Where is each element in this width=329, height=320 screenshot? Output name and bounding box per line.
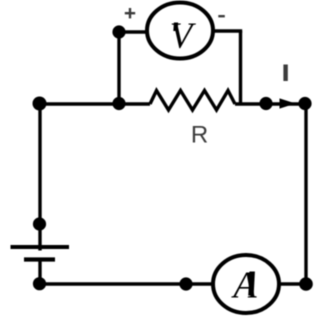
wire voltmeter plus horizontal [119,30,147,33]
node bottom-right [299,277,313,291]
label plus [125,8,135,18]
resistor R [150,91,235,111]
label minus [218,15,225,17]
node before arrow [259,97,272,110]
wire left vertical [38,104,41,251]
battery short plate [24,257,55,261]
wire voltmeter plus vertical [117,32,120,104]
node top-left [33,97,47,111]
node before ammeter [179,277,192,290]
label I current [283,65,287,82]
battery long plate [11,245,70,249]
wire top-left horizontal [40,102,150,105]
node top-right [298,97,311,110]
ammeter A circle [213,255,279,313]
wire voltmeter minus vertical [239,31,242,104]
wire bottom-left [40,282,213,285]
wire battery to bottom corner [38,258,41,284]
node voltmeter branch junction [112,97,125,110]
node voltmeter plus terminal [112,25,125,38]
wire bottom-right [279,282,306,285]
node bottom-left [33,277,46,290]
voltmeter U-V circle [147,3,213,59]
ammeter A stem stroke [248,272,255,296]
wire top-right horizontal [235,102,306,105]
wire right vertical [304,104,307,284]
svg-text:R: R [191,121,208,148]
current arrow [280,98,296,108]
voltmeter V serif blob [173,23,178,32]
node battery top [33,217,46,230]
wire voltmeter minus horizontal [213,29,242,32]
